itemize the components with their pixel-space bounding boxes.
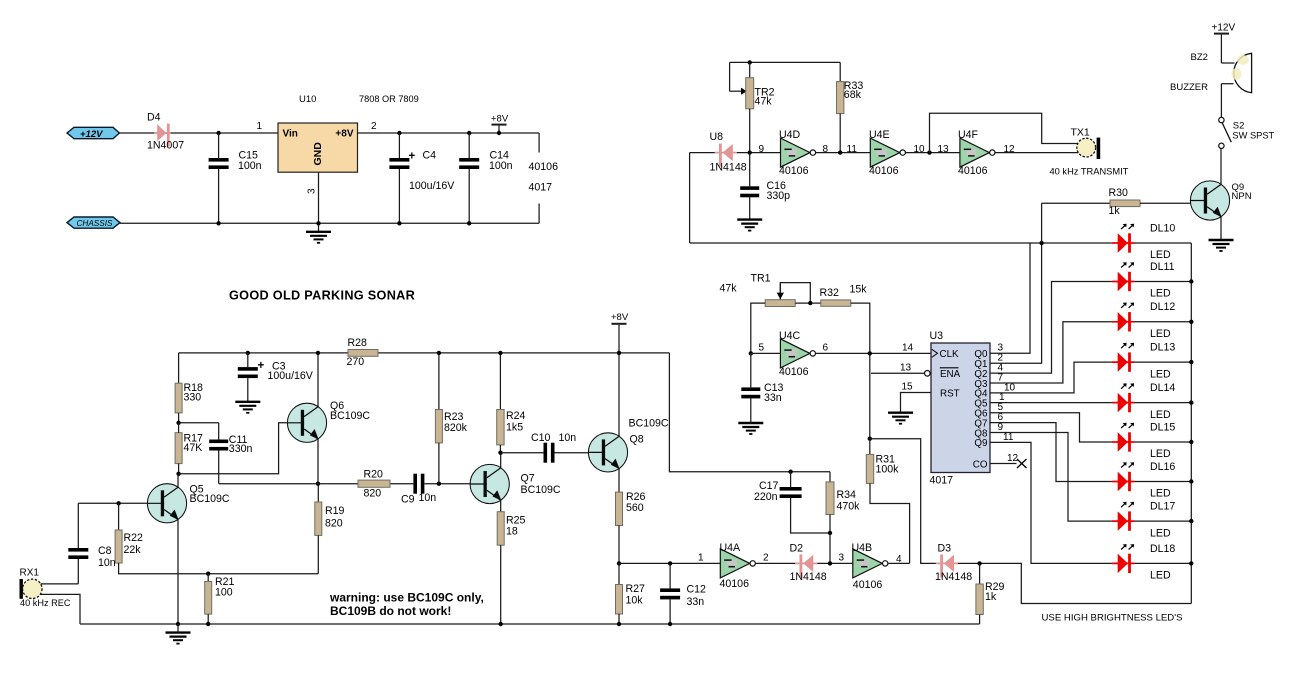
svg-text:DL11: DL11: [1150, 261, 1175, 273]
wire ENA net to D3 anode: [870, 439, 936, 564]
junction R23 rail: [437, 351, 441, 355]
wire R21 bottom stem: [207, 614, 209, 624]
transistor Q6: [287, 403, 326, 442]
svg-text:LED: LED: [1150, 570, 1171, 582]
svg-text:100: 100: [215, 586, 233, 598]
wire DL16 cathode to bus: [1135, 481, 1192, 483]
svg-text:10: 10: [914, 144, 926, 155]
wire C9 to Q7 base: [424, 483, 470, 485]
wire main ground bus: [80, 623, 980, 625]
svg-text:C4: C4: [423, 150, 437, 162]
svg-text:LED: LED: [1150, 249, 1171, 261]
svg-text:D2: D2: [790, 542, 804, 554]
svg-text:U3: U3: [930, 330, 944, 342]
svg-text:SW SPST: SW SPST: [1232, 130, 1274, 140]
svg-text:R28: R28: [348, 337, 368, 349]
wire R22/R21/R19 row: [119, 563, 319, 574]
svg-text:DL17: DL17: [1150, 501, 1175, 513]
svg-text:+8V: +8V: [335, 129, 353, 140]
svg-text:40 kHz TRANSMIT: 40 kHz TRANSMIT: [1050, 167, 1129, 177]
svg-text:D3: D3: [938, 542, 952, 554]
resistor R34: [826, 482, 834, 515]
svg-text:Vin: Vin: [283, 129, 298, 140]
svg-text:1N4007: 1N4007: [147, 140, 184, 152]
junction TR2 top: [748, 60, 752, 64]
wire Q5 base: [78, 502, 147, 504]
svg-text:R23: R23: [444, 411, 464, 423]
wire chassis return: [120, 222, 539, 224]
svg-text:C12: C12: [687, 584, 707, 596]
svg-text:12: 12: [1007, 453, 1019, 464]
wire DL18 cathode to bus: [1135, 562, 1192, 564]
junction R23 bottom: [437, 482, 441, 486]
svg-text:1N4148: 1N4148: [710, 162, 747, 174]
wire C8 top stem: [77, 503, 79, 548]
wire U10 pin2 +8V rail: [358, 132, 540, 134]
svg-text:47K: 47K: [184, 442, 203, 454]
inverter U4A: [720, 549, 755, 578]
wire Q0 feedback / DL10 anode rail: [690, 242, 1112, 244]
junction R25 ground: [499, 622, 503, 626]
LED DL15: [1112, 423, 1135, 452]
svg-text:7: 7: [998, 372, 1004, 383]
svg-text:330: 330: [184, 392, 202, 404]
wire U8 anode side: [690, 152, 715, 154]
wire R31 top stem: [869, 439, 871, 455]
inverter U4D: [781, 138, 816, 167]
svg-text:2: 2: [371, 121, 377, 132]
capacitor C15: [209, 158, 229, 162]
wire Q6 emitter stem: [317, 439, 319, 484]
wire R19 top stem: [317, 484, 319, 502]
wire R30 left stub: [1042, 202, 1110, 204]
svg-text:U4C: U4C: [779, 330, 801, 342]
wire R33 top stem: [839, 62, 841, 81]
trimmer TR1 wiper: [780, 283, 810, 304]
wire R17 top stem: [178, 423, 180, 433]
wire buzzer to switch: [1220, 84, 1222, 118]
ground under C13: [738, 423, 763, 434]
wire C13 bottom stem: [750, 398, 752, 423]
wire R22 top stem: [118, 503, 120, 530]
wire R26 bottom stem: [618, 526, 620, 564]
wire C4 top stem: [398, 133, 400, 158]
svg-text:BC109C: BC109C: [521, 484, 561, 496]
junction Q5 emitter / ground: [176, 622, 180, 626]
svg-text:1N4148: 1N4148: [790, 571, 827, 583]
svg-text:3: 3: [307, 188, 318, 194]
wire to D2 cathode node: [829, 533, 831, 563]
capacitor C14: [459, 158, 479, 162]
diode D4: [154, 124, 171, 147]
wire C4 bottom stem: [398, 169, 400, 223]
svg-text:D4: D4: [147, 112, 161, 124]
wire U8 to U4D input: [737, 152, 781, 154]
svg-text:12: 12: [1004, 144, 1016, 155]
wire buzzer top stub: [1221, 62, 1234, 64]
wire Q2 to DL11: [990, 282, 1112, 374]
wire right loop segment lower: [538, 204, 540, 224]
IC U3 4017: [931, 343, 990, 473]
resistor R25: [497, 512, 504, 546]
wire Q8 to DL17: [990, 433, 1112, 522]
svg-text:LED: LED: [1150, 488, 1171, 500]
wire DL15 cathode to bus: [1135, 441, 1192, 443]
svg-text:68k: 68k: [844, 89, 862, 101]
transducer RX1: [23, 579, 42, 598]
junction R24 rail: [498, 351, 502, 355]
svg-text:4017: 4017: [529, 182, 553, 194]
wire U4C input: [751, 352, 781, 354]
wire Q5 to DL14: [990, 402, 1112, 404]
ground on main bus: [166, 633, 191, 644]
junction R18/R17: [176, 421, 180, 425]
wire C12 top stem: [669, 563, 671, 588]
svg-text:GOOD OLD PARKING SONAR: GOOD OLD PARKING SONAR: [229, 289, 415, 303]
svg-text:BC109C: BC109C: [629, 418, 669, 430]
wire Q7 to DL16: [990, 423, 1112, 482]
wire detector node to U4A: [619, 562, 720, 564]
svg-text:Q8: Q8: [630, 434, 644, 446]
capacitor C11: [209, 440, 228, 444]
wire to C10: [501, 452, 544, 454]
wire C3 top stem: [247, 353, 249, 367]
wire R31 bottom to U4B output: [870, 483, 910, 563]
svg-text:820: 820: [325, 518, 343, 530]
wire Q1 to DL10 net: [990, 243, 1042, 363]
resistor R23: [435, 410, 442, 443]
wire Q5 collector stem: [177, 474, 179, 487]
wire DL17 cathode to bus: [1135, 520, 1192, 522]
svg-text:40106: 40106: [720, 578, 750, 590]
svg-text:DL16: DL16: [1150, 461, 1175, 473]
diode D2: [795, 554, 817, 577]
transistor Q8: [588, 433, 627, 472]
LED DL13: [1112, 343, 1135, 372]
wire emitter row to C9: [219, 483, 414, 485]
wire +12V to buzzer: [1220, 35, 1222, 63]
svg-text:+12V: +12V: [80, 129, 103, 140]
wire U10 pin3 GND stem: [318, 172, 320, 232]
wire TR2/R33 top: [730, 61, 841, 63]
svg-text:C8: C8: [98, 545, 112, 557]
svg-text:1: 1: [256, 121, 262, 132]
svg-text:33n: 33n: [687, 596, 705, 608]
wire C12 bottom stem: [669, 599, 671, 624]
wire Q9 to DL18: [990, 442, 1112, 563]
wire U4E out to U4F in: [906, 152, 960, 154]
svg-text:40106: 40106: [779, 165, 809, 177]
svg-text:100n: 100n: [238, 160, 262, 172]
wire +8V to C17/R34 top: [669, 353, 830, 472]
resistor R33: [837, 82, 844, 114]
junction C15 top / +12V rail: [216, 131, 220, 135]
svg-text:1k5: 1k5: [506, 422, 523, 434]
wire U4D out to U4E in: [816, 152, 871, 154]
junction clock feedback: [868, 351, 872, 355]
svg-text:LED: LED: [1150, 368, 1171, 380]
svg-text:100u/16V: 100u/16V: [409, 180, 455, 192]
svg-text:1k: 1k: [1109, 205, 1121, 217]
wire U4A out to D2: [756, 562, 796, 564]
svg-text:U4B: U4B: [852, 542, 873, 554]
wire C11 top stem: [218, 423, 220, 440]
svg-text:BC109C: BC109C: [330, 410, 370, 422]
svg-text:1N4148: 1N4148: [935, 571, 972, 583]
svg-text:C10: C10: [531, 432, 551, 444]
svg-text:R32: R32: [820, 287, 840, 299]
wire Q6 collector stem: [317, 353, 319, 407]
svg-text:4017: 4017: [930, 475, 954, 487]
svg-text:R24: R24: [506, 410, 526, 422]
wire C15 top stem: [218, 133, 220, 158]
junction cathode bus DL15: [1189, 440, 1193, 444]
svg-text:+: +: [258, 360, 265, 372]
junction +8V rail tap: [617, 351, 621, 355]
wire R27 top stem: [618, 563, 620, 584]
junction C14 bottom: [467, 221, 471, 225]
CO no-connect X: [1017, 459, 1027, 468]
svg-text:330n: 330n: [229, 443, 253, 455]
svg-text:40106: 40106: [779, 366, 809, 378]
svg-text:22k: 22k: [124, 544, 142, 556]
junction C12 top: [668, 561, 672, 565]
resistor R27: [616, 585, 623, 615]
wire Q3 to DL12: [990, 322, 1112, 383]
capacitor C9: [413, 474, 417, 494]
junction Q6 emitter / R19: [316, 482, 320, 486]
junction cathode bus DL18: [1189, 561, 1193, 565]
svg-text:33n: 33n: [764, 392, 782, 404]
wire U4B output: [888, 562, 910, 564]
svg-text:BZ2: BZ2: [1191, 52, 1208, 63]
svg-text:R22: R22: [124, 532, 144, 544]
junction R27 ground: [617, 622, 621, 626]
junction U4C input: [749, 351, 753, 355]
svg-text:LED: LED: [1150, 288, 1171, 300]
svg-text:U10: U10: [299, 94, 316, 105]
svg-text:6: 6: [823, 343, 829, 354]
junction Q5 collector: [176, 472, 180, 476]
junction cathode bus DL13: [1189, 360, 1193, 364]
svg-text:10: 10: [1004, 382, 1016, 393]
wire R18 bottom stem: [178, 413, 180, 423]
junction +8V tap: [497, 131, 501, 135]
wire R34 bottom stem: [829, 515, 831, 534]
wire DL12 cathode to bus: [1135, 321, 1192, 323]
wire DL13 cathode to bus: [1135, 361, 1192, 363]
resistor R24: [497, 410, 504, 445]
wire R27 bottom stem: [618, 614, 620, 624]
svg-text:BC109C: BC109C: [190, 493, 230, 505]
svg-text:BUZZER: BUZZER: [1170, 82, 1208, 93]
wire Q7 collector stem: [500, 453, 502, 468]
wire C11 bottom stem: [218, 451, 220, 484]
svg-text:8: 8: [823, 144, 829, 155]
trimmer TR2 wiper arrow: [730, 90, 742, 92]
resistor R17: [175, 433, 182, 464]
svg-text:BC109B do not work!: BC109B do not work!: [330, 604, 451, 618]
svg-text:TR1: TR1: [751, 272, 771, 284]
junction R26/R27: [617, 561, 621, 565]
wire R34 top stem: [829, 472, 831, 482]
svg-text:820: 820: [364, 487, 382, 499]
svg-text:R27: R27: [626, 583, 646, 595]
wire CO stub: [990, 463, 1017, 465]
resistor R29: [976, 584, 983, 615]
wire C3 bottom stem: [247, 378, 249, 402]
svg-text:NPN: NPN: [1232, 191, 1252, 202]
node +12V input flag: [67, 127, 120, 138]
svg-text:40106: 40106: [958, 165, 988, 177]
svg-text:10n: 10n: [419, 492, 437, 504]
transistor Q9: [1190, 181, 1229, 220]
resistor R19: [315, 502, 322, 535]
svg-text:DL18: DL18: [1150, 543, 1175, 555]
resistor R18: [175, 383, 182, 413]
svg-text:40106: 40106: [529, 161, 559, 173]
svg-text:LED: LED: [1150, 328, 1171, 340]
svg-text:TX1: TX1: [1071, 126, 1090, 138]
wire +8V to Q8 collector: [618, 325, 620, 436]
svg-text:C9: C9: [401, 494, 415, 506]
resistor R21: [205, 582, 212, 615]
wire C13 top stem: [750, 353, 752, 387]
junction R34/C17 bottom: [828, 531, 832, 535]
wire TR1 left to U4C input: [751, 303, 765, 353]
svg-text:R20: R20: [364, 469, 384, 481]
svg-text:R26: R26: [626, 491, 646, 503]
wire Q8 emitter stem: [618, 469, 620, 493]
svg-text:R30: R30: [1109, 187, 1129, 199]
svg-text:330p: 330p: [767, 190, 791, 202]
svg-text:CHASSIS: CHASSIS: [77, 219, 113, 228]
wire C10 to Q8 base: [555, 452, 591, 454]
svg-text:R19: R19: [325, 505, 345, 517]
svg-text:+8V: +8V: [611, 312, 629, 323]
buzzer BZ2: [1234, 53, 1252, 92]
svg-text:47k: 47k: [720, 283, 738, 295]
junction cathode bus DL16: [1189, 479, 1193, 483]
svg-text:560: 560: [626, 502, 644, 514]
wire R24 bottom stem: [499, 445, 501, 453]
wire U4F out to TX1: [995, 152, 1078, 154]
capacitor C4 (electrolytic): [389, 158, 409, 162]
wire D2 to U4B: [817, 562, 853, 564]
svg-text:100k: 100k: [876, 463, 900, 475]
svg-text:10k: 10k: [626, 595, 644, 607]
junction TR2/C16/U8: [748, 150, 752, 154]
wire R24 top stem: [499, 353, 501, 410]
svg-text:270: 270: [347, 356, 365, 368]
junction D2/R34/U4B: [828, 561, 832, 565]
capacitor C12: [660, 588, 680, 592]
wire C14 top stem: [468, 133, 470, 158]
wire right loop segment upper: [538, 133, 540, 153]
junction U10 gnd: [316, 221, 320, 225]
transducer TX1: [1077, 138, 1096, 157]
diode D3: [936, 554, 958, 577]
resistor R28: [348, 350, 378, 357]
svg-text:1: 1: [698, 553, 704, 564]
wire LED cathode bus: [1190, 243, 1192, 604]
inverter U4B: [853, 549, 888, 578]
svg-text:10n: 10n: [98, 557, 116, 569]
junction C4 bottom: [397, 221, 401, 225]
wire Q4 to DL13: [990, 362, 1112, 393]
wire ENA stub: [871, 372, 925, 374]
wire +8V rail (receiver): [179, 352, 670, 354]
wire +12V to U10 pin 1: [120, 132, 279, 134]
wire R33 bottom stem: [839, 114, 841, 153]
capacitor C17: [780, 487, 802, 491]
wire R21 top stem: [207, 574, 209, 582]
svg-text:Q9: Q9: [974, 438, 987, 449]
junction C4 top: [397, 131, 401, 135]
wire DL14 cathode to bus: [1135, 402, 1192, 404]
svg-text:+12V: +12V: [1212, 23, 1236, 34]
svg-text:1k: 1k: [985, 591, 997, 603]
wire C16 bottom stem: [749, 197, 751, 219]
junction cathode bus DL12: [1189, 320, 1193, 324]
resistor R32: [821, 300, 851, 306]
junction C15 bottom: [216, 221, 220, 225]
inverter U4E: [870, 138, 905, 167]
wire C17 bottom: [791, 498, 830, 533]
ground under RST: [888, 413, 913, 424]
diode U8: [715, 144, 737, 167]
resistor R31: [866, 454, 873, 483]
svg-text:R34: R34: [837, 489, 857, 501]
svg-text:U4E: U4E: [869, 129, 890, 141]
wire RX1 bottom terminal to ground bus: [40, 594, 80, 624]
svg-text:220n: 220n: [754, 491, 778, 503]
junction R29 top: [977, 561, 981, 565]
svg-text:LED: LED: [1150, 448, 1171, 460]
node CHASSIS flag: [67, 217, 120, 228]
svg-text:40106: 40106: [869, 165, 899, 177]
wire Q0 to feedback rail: [990, 243, 1030, 353]
svg-text:GND: GND: [312, 142, 324, 166]
wire TR2 wiper riser: [729, 62, 731, 91]
trimmer TR1: [765, 300, 795, 307]
wire C17 top stem: [790, 472, 792, 487]
resistor R20: [358, 480, 390, 487]
wire TR2 top stem: [749, 62, 751, 77]
svg-text:ENA: ENA: [940, 369, 961, 380]
svg-text:LED: LED: [1150, 527, 1171, 539]
svg-text:U4F: U4F: [958, 129, 979, 141]
wire C15 bottom stem: [218, 169, 220, 223]
wire Q9 emitter to ground: [1220, 217, 1222, 240]
wire U4C out to U3 CLK: [816, 352, 932, 354]
junction R30 tap: [1039, 241, 1043, 245]
svg-text:5: 5: [759, 343, 765, 354]
capacitor C13: [741, 387, 760, 391]
junction cathode bus DL11: [1189, 279, 1193, 283]
junction feedback tap: [927, 150, 931, 154]
svg-text:15: 15: [902, 382, 914, 393]
ground under C16: [737, 220, 762, 231]
svg-text:DL14: DL14: [1150, 382, 1175, 394]
svg-text:9: 9: [759, 144, 765, 155]
wire R30 left drop: [1041, 203, 1043, 243]
svg-text:13: 13: [900, 362, 912, 373]
junction C17 top: [788, 470, 792, 474]
LED DL18: [1112, 544, 1135, 573]
wire R32 right to U4C output: [851, 303, 870, 353]
wire Q6 to DL15: [990, 413, 1112, 442]
